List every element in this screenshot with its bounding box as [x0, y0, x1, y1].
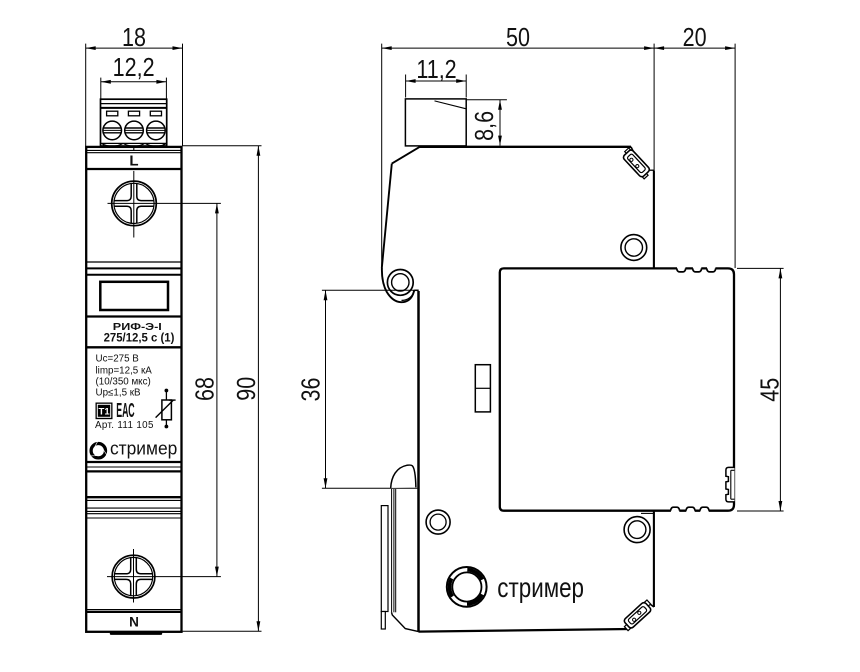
svg-text:36: 36 — [296, 378, 326, 402]
svg-text:12,2: 12,2 — [113, 53, 155, 83]
svg-text:11,2: 11,2 — [416, 55, 456, 85]
svg-text:Uc=275 В: Uc=275 В — [96, 353, 140, 364]
svg-text:L: L — [129, 153, 138, 170]
svg-text:20: 20 — [683, 23, 707, 53]
svg-text:limp=12,5 кА: limp=12,5 кА — [96, 365, 153, 376]
svg-text:стример: стример — [497, 573, 584, 604]
svg-text:18: 18 — [122, 23, 146, 53]
svg-text:Up≤1,5 кВ: Up≤1,5 кВ — [96, 387, 142, 398]
svg-text:68: 68 — [191, 377, 221, 401]
svg-text:N: N — [129, 614, 139, 629]
svg-text:Арт. 111 105: Арт. 111 105 — [95, 420, 154, 431]
svg-text:90: 90 — [232, 377, 262, 401]
svg-text:275/12,5 с (1): 275/12,5 с (1) — [104, 332, 175, 344]
svg-text:45: 45 — [755, 378, 785, 402]
svg-text:50: 50 — [506, 23, 530, 53]
svg-text:стример: стример — [110, 438, 177, 459]
svg-text:РИФ-Э-I: РИФ-Э-I — [113, 322, 162, 333]
svg-text:Т1: Т1 — [99, 407, 111, 418]
svg-text:8,6: 8,6 — [470, 111, 500, 141]
svg-text:(10/350 мкс): (10/350 мкс) — [96, 376, 151, 387]
